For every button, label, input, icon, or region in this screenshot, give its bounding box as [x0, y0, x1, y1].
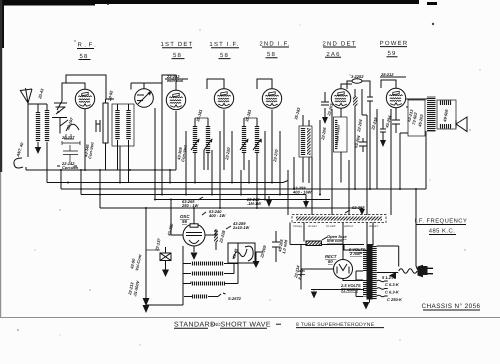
- svg-text:RF AMP: RF AMP: [326, 225, 336, 228]
- svg-text:56: 56: [182, 219, 187, 224]
- svg-text:5 1.2-K: 5 1.2-K: [382, 275, 396, 280]
- svg-text:2A6: 2A6: [326, 51, 340, 58]
- svg-text:Primary: Primary: [293, 225, 303, 228]
- svg-text:C 6.3-K: C 6.3-K: [385, 290, 400, 295]
- svg-text:I.F. FREQUENCY: I.F. FREQUENCY: [415, 218, 468, 225]
- svg-text:1ST I.F.: 1ST I.F.: [209, 41, 239, 48]
- svg-text:20-217: 20-217: [61, 135, 75, 140]
- svg-text:400 - 1W: 400 - 1W: [208, 213, 226, 218]
- svg-text:8 TUBE SUPERHETERODYNE: 8 TUBE SUPERHETERODYNE: [296, 322, 375, 328]
- svg-text:80: 80: [328, 259, 333, 264]
- svg-text:2N DET: 2N DET: [308, 225, 318, 228]
- svg-text:C 6.3-K: C 6.3-K: [385, 282, 400, 287]
- svg-text:250 - 1W: 250 - 1W: [181, 203, 199, 208]
- svg-text:58: 58: [267, 51, 276, 58]
- svg-text:3-2252: 3-2252: [351, 74, 364, 79]
- svg-text:2 AMP: 2 AMP: [349, 251, 362, 256]
- svg-text:CHASSIS N° 2056: CHASSIS N° 2056: [422, 303, 481, 310]
- svg-text:28-212: 28-212: [380, 72, 394, 77]
- svg-text:2x10-1W: 2x10-1W: [232, 225, 250, 230]
- svg-text:58: 58: [220, 52, 229, 59]
- svg-text:58: 58: [173, 52, 182, 59]
- svg-text:AMPLIF: AMPLIF: [344, 225, 354, 228]
- svg-text:485 K.C.: 485 K.C.: [429, 228, 456, 235]
- svg-text:STANDARD: STANDARD: [174, 321, 216, 328]
- svg-text:S-2672: S-2672: [228, 296, 242, 301]
- svg-text:400 - 16W: 400 - 16W: [292, 190, 313, 195]
- svg-text:1ST DET: 1ST DET: [161, 41, 194, 48]
- svg-text:R.F.: R.F.: [77, 42, 98, 49]
- svg-text:SHORT WAVE: SHORT WAVE: [221, 321, 272, 328]
- svg-text:59: 59: [387, 50, 396, 57]
- svg-text:58: 58: [79, 53, 88, 60]
- svg-text:.1M-1W: .1M-1W: [247, 201, 262, 206]
- svg-text:63-308: 63-308: [352, 205, 365, 210]
- svg-text:line cord: line cord: [327, 238, 344, 243]
- svg-text:C 250-K: C 250-K: [387, 297, 403, 302]
- svg-text:2N DET: 2N DET: [369, 225, 379, 228]
